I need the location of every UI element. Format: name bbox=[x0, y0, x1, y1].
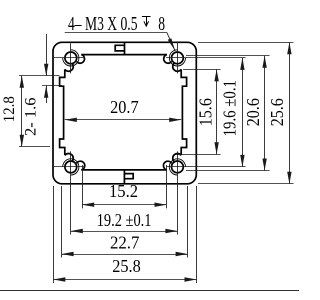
wire top slit cut bbox=[124, 42, 126, 54]
dimension 19.2 plus-minus 0.1 bbox=[71, 231, 178, 233]
svg-text:19.2 ±0.1: 19.2 ±0.1 bbox=[97, 210, 152, 230]
dimension 25.8 bbox=[53, 279, 196, 281]
svg-text:2- 1.6: 2- 1.6 bbox=[23, 97, 40, 136]
screw boss hole bottom-left with hooks bbox=[63, 159, 79, 175]
screw boss hole top-right with hooks bbox=[169, 50, 185, 66]
node BR boss centerlines bbox=[166, 166, 246, 168]
wire inner right wall with card grooves bbox=[181, 69, 186, 155]
dimension 2- 1.6 slot width bbox=[46, 34, 48, 76]
svg-text:8: 8 bbox=[158, 13, 165, 35]
dimension 15.6 bbox=[216, 69, 218, 154]
wire top slot pocket bbox=[115, 45, 124, 51]
screw boss hole bottom-right with hooks bbox=[169, 159, 185, 175]
wire extension lines right side bbox=[198, 42, 294, 44]
dimension 19.6 plus-minus 0.1 bbox=[242, 58, 244, 167]
wire extension lines bottom bbox=[53, 186, 55, 283]
svg-text:15.6: 15.6 bbox=[196, 98, 216, 126]
wire inner left wall with card grooves bbox=[60, 69, 65, 155]
wire inner top wall surface bbox=[81, 54, 167, 56]
svg-text:19.6 ±0.1: 19.6 ±0.1 bbox=[220, 80, 240, 136]
node TL boss centerlines bbox=[54, 57, 85, 59]
dimension 15.2 bbox=[82, 204, 166, 206]
wire extension lines left side bbox=[19, 75, 60, 77]
svg-text:25.8: 25.8 bbox=[112, 256, 141, 276]
dimension 22.7 bbox=[62, 254, 188, 256]
svg-text:4– M3 X 0.5: 4– M3 X 0.5 bbox=[68, 13, 138, 35]
svg-text:12.8: 12.8 bbox=[1, 96, 18, 122]
dimension 20.6 bbox=[264, 56, 266, 171]
wire outer profile of extrusion body bbox=[53, 42, 196, 184]
dimension 12.8 bbox=[21, 76, 23, 147]
wire bottom slot pocket bbox=[124, 174, 133, 179]
svg-text:20.6: 20.6 bbox=[243, 98, 263, 126]
wire inner bottom wall surface bbox=[81, 169, 167, 171]
callout leader line with arrow bbox=[65, 32, 167, 34]
dimension 25.6 bbox=[289, 42, 291, 184]
dimension 20.7 inner width bbox=[65, 119, 181, 121]
svg-text:22.7: 22.7 bbox=[110, 232, 140, 252]
node BL boss centerlines bbox=[54, 166, 85, 168]
screw boss hole top-left with hooks bbox=[63, 50, 79, 66]
node TR boss centerlines bbox=[166, 57, 246, 59]
svg-text:15.2: 15.2 bbox=[109, 181, 138, 201]
svg-text:20.7: 20.7 bbox=[110, 97, 139, 117]
svg-text:25.6: 25.6 bbox=[267, 98, 287, 126]
wire bottom slit cut bbox=[123, 170, 125, 184]
wire drawing sheet border at bottom bbox=[0, 290, 299, 292]
